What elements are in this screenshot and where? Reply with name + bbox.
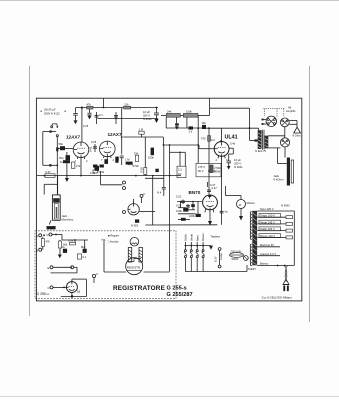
wire x104 vertical bbox=[103, 239, 105, 272]
wire motor feed from transformer area bbox=[226, 186, 242, 196]
record head coil body bbox=[128, 248, 142, 263]
resistor 120k dark bbox=[176, 208, 188, 213]
capacitor on x169.5 bbox=[157, 188, 166, 195]
svg-text:Tastiera: Tastiera bbox=[211, 235, 221, 239]
page right edge bbox=[308, 66, 310, 322]
ground arrow motor bbox=[239, 209, 243, 221]
svg-text:N 4021: N 4021 bbox=[234, 165, 243, 169]
mic jack body bbox=[44, 176, 60, 225]
pilot lamp circle bbox=[243, 256, 248, 261]
terminal F G255u bbox=[92, 272, 98, 278]
wire row y115.6 bbox=[161, 115, 210, 129]
wire from UL41 plate to transformer bbox=[221, 127, 258, 130]
tap Marrone 6V bbox=[257, 243, 280, 247]
resistor cathode V1b dark bbox=[90, 166, 99, 175]
title G 255/287 bbox=[167, 292, 193, 298]
ground arrow below C left bbox=[74, 120, 78, 124]
svg-text:Rosso 110 V: Rosso 110 V bbox=[260, 234, 275, 238]
lamp terminals bbox=[218, 248, 223, 268]
triangle 8 Ohm bbox=[293, 127, 302, 137]
tap Rosso 110V bbox=[257, 234, 292, 239]
wire vertical x78.3 plate feed V1 bbox=[82, 108, 89, 142]
mains plug bbox=[283, 281, 290, 291]
resistor 33k vertical bbox=[128, 151, 139, 166]
tap Grigio 160V bbox=[257, 214, 292, 219]
terminal small mid bbox=[71, 266, 74, 269]
svg-text:Jack: Jack bbox=[62, 214, 68, 218]
resistor 0.47 box on bus bbox=[45, 170, 55, 177]
wire y128 run bbox=[166, 127, 204, 129]
resistor box row R a bbox=[166, 110, 180, 118]
resistor 27k left outlined bbox=[72, 162, 81, 168]
mid coupling: resistor 1M dark bbox=[125, 158, 139, 168]
voltage table box B bbox=[196, 163, 221, 177]
svg-text:1/2W: 1/2W bbox=[214, 170, 221, 174]
wire x103.5 from frame top bbox=[103, 98, 105, 108]
voltage table box A bbox=[177, 166, 186, 178]
ground arrow BN70 bbox=[208, 210, 212, 226]
resistor 47k top bbox=[87, 102, 94, 109]
svg-text:275 V: 275 V bbox=[198, 165, 205, 169]
record head top circle bbox=[130, 237, 139, 246]
svg-text:4µ: 4µ bbox=[225, 210, 228, 214]
power transformer core hatched bbox=[252, 211, 257, 265]
label 12AX7 second bbox=[108, 132, 122, 137]
svg-text:8 Ohm: 8 Ohm bbox=[293, 134, 302, 138]
label BN70 bbox=[189, 190, 201, 195]
wire mic to bus bbox=[51, 176, 57, 193]
terminal C bbox=[48, 286, 67, 290]
svg-text:5.4k: 5.4k bbox=[230, 142, 236, 146]
bias network block right of V2 bbox=[93, 165, 105, 175]
svg-text:0.47: 0.47 bbox=[212, 186, 218, 190]
svg-text:B: B bbox=[36, 248, 38, 252]
tap Nero 220V bbox=[257, 207, 294, 211]
svg-text:0.05: 0.05 bbox=[140, 167, 144, 173]
tap Giallo 125V bbox=[257, 227, 292, 232]
svg-text:Lamp.: Lamp. bbox=[219, 252, 223, 260]
legend Ascolto bbox=[108, 240, 120, 244]
svg-text:REGISTR.: REGISTR. bbox=[127, 266, 141, 270]
wire P2 to speaker vertical bbox=[284, 127, 286, 138]
svg-text:Giallo 125 V: Giallo 125 V bbox=[260, 227, 275, 231]
svg-text:Rosso: Rosso bbox=[201, 233, 205, 241]
svg-text:250V N 4122: 250V N 4122 bbox=[44, 112, 60, 116]
tastiera bottom bus bbox=[185, 265, 247, 272]
svg-text:15k: 15k bbox=[202, 121, 207, 125]
svg-text:2.2: 2.2 bbox=[178, 168, 182, 172]
wire motor top bbox=[240, 196, 242, 200]
svg-text:47k: 47k bbox=[46, 240, 51, 244]
speaker LS circle-X bbox=[280, 138, 289, 147]
wire x160 vertical long bbox=[163, 144, 165, 146]
terminal circles mid bbox=[123, 181, 126, 214]
capacitor tone 1 bbox=[186, 117, 188, 128]
tastiera wire 3 bbox=[195, 235, 199, 272]
dashed link line top bbox=[263, 109, 285, 117]
wire B+ vertical x250 bbox=[210, 108, 258, 141]
page left edge bbox=[29, 66, 31, 316]
tap Bianco bbox=[257, 262, 294, 266]
tube UL41 bbox=[214, 140, 229, 160]
svg-text:Motore: Motore bbox=[247, 201, 256, 205]
terminal D bbox=[47, 233, 63, 237]
resistor 68k below V2 bbox=[115, 156, 120, 163]
wires transformer to speaker bbox=[268, 136, 285, 148]
svg-text:56k: 56k bbox=[59, 142, 64, 146]
label UL41 bbox=[225, 135, 238, 141]
tube T oscillator bbox=[128, 204, 139, 215]
svg-text:N 92: N 92 bbox=[99, 170, 105, 174]
label N 921-75 bbox=[255, 149, 267, 153]
svg-text:8k2: 8k2 bbox=[81, 245, 86, 249]
socket connector P2 circle-X bbox=[280, 118, 297, 127]
ground bus under BN70 bbox=[145, 212, 217, 225]
fuse 220V bbox=[230, 249, 244, 261]
wires BN70 grid left bbox=[177, 201, 202, 221]
capacitor block mid caps bbox=[87, 109, 91, 120]
svg-text:0.1: 0.1 bbox=[83, 255, 87, 259]
svg-text:33k: 33k bbox=[134, 151, 139, 155]
svg-text:A: A bbox=[36, 234, 38, 238]
legend Registr bbox=[108, 234, 120, 238]
svg-text:0.47: 0.47 bbox=[46, 170, 52, 174]
tap Verde 145V bbox=[257, 220, 292, 225]
ground arrow G255u bbox=[58, 254, 62, 258]
socket connector P1 circle-X bbox=[266, 116, 276, 126]
svg-text:E: E bbox=[48, 266, 50, 270]
wire x121.7 bbox=[120, 108, 124, 166]
svg-text:12AX7: 12AX7 bbox=[108, 132, 122, 137]
svg-text:50/60: 50/60 bbox=[232, 257, 239, 261]
svg-text:25+25 µF: 25+25 µF bbox=[44, 108, 56, 112]
svg-text:C: C bbox=[48, 286, 50, 290]
svg-text:N 4122: N 4122 bbox=[143, 117, 152, 121]
resistor 2k dark on y128 bbox=[189, 126, 194, 133]
svg-text:24k: 24k bbox=[167, 110, 172, 114]
svg-text:250 V: 250 V bbox=[234, 162, 241, 166]
svg-text:90 V: 90 V bbox=[198, 169, 204, 173]
wire head bottom to right bbox=[104, 272, 170, 278]
label Jack 8 KOhm bbox=[274, 174, 285, 182]
svg-text:470k: 470k bbox=[133, 164, 139, 168]
resistor 220k dark bbox=[189, 214, 201, 218]
svg-text:12k: 12k bbox=[124, 102, 129, 106]
mains switch S1 bbox=[43, 124, 59, 137]
wire osc plate right bbox=[139, 176, 155, 212]
svg-text:Jack: Jack bbox=[274, 174, 280, 178]
capacitor 0.47 UL41 bbox=[208, 182, 216, 187]
wire top bus y107.5 bbox=[76, 107, 159, 109]
svg-text:Giallo: Giallo bbox=[184, 234, 188, 241]
tube V2 12AX7 bbox=[100, 141, 116, 158]
svg-text:G 255/287: G 255/287 bbox=[167, 292, 193, 298]
resistor cathode V1 dark bbox=[60, 155, 70, 164]
tube V1 12AX7 bbox=[73, 142, 89, 159]
svg-text:G 255-s: G 255-s bbox=[167, 285, 187, 291]
resistor box row R b bbox=[183, 110, 198, 118]
footer SpA Geloso Milano bbox=[262, 295, 293, 299]
resistor 15k top bbox=[124, 102, 131, 109]
svg-text:Arancio 6.3 V: Arancio 6.3 V bbox=[260, 252, 276, 256]
wires speaker down to jack bbox=[278, 147, 287, 164]
pin digits tubes bbox=[75, 158, 229, 163]
svg-text:S.p.A GELOSO Milano: S.p.A GELOSO Milano bbox=[262, 295, 293, 299]
page top edge line bbox=[0, 0, 339, 2]
label 0.45 rotated bbox=[89, 146, 93, 152]
label G 255 u bbox=[37, 292, 49, 296]
output transformer T2 primary coil bbox=[258, 130, 264, 150]
ground arrow on bus bbox=[65, 176, 69, 182]
box 0.1 G255u bbox=[77, 254, 86, 259]
svg-text:N 4: N 4 bbox=[157, 191, 162, 195]
title REGISTRATORE bbox=[113, 285, 166, 292]
capacitor 0.05 on x147 bbox=[140, 167, 159, 175]
wire y163.7 bbox=[43, 132, 58, 167]
svg-text:Microfono: Microfono bbox=[62, 218, 74, 222]
svg-text:1B: 1B bbox=[77, 289, 80, 293]
svg-text:BN70: BN70 bbox=[189, 190, 201, 195]
tastiera wire 2 bbox=[189, 233, 193, 271]
svg-text:27k: 27k bbox=[76, 164, 81, 168]
label Alt Amplific bbox=[286, 106, 296, 113]
capacitor 25uF left bbox=[59, 152, 70, 176]
svg-text:0.05: 0.05 bbox=[91, 140, 97, 144]
svg-text:N 923: N 923 bbox=[131, 224, 139, 228]
wire second bus y118.5 bbox=[98, 118, 159, 120]
tube BN70 bbox=[203, 195, 218, 213]
resistor 1M on y137 bbox=[139, 127, 145, 137]
wire left of V1 vertical bbox=[63, 147, 65, 149]
svg-text:8 KOhm: 8 KOhm bbox=[274, 178, 285, 182]
power transformer primary coil bbox=[250, 212, 252, 240]
label Jack Microfono bbox=[62, 214, 74, 222]
label 47u bbox=[220, 160, 228, 225]
terminal F bbox=[134, 192, 146, 204]
wire y137 run bbox=[123, 137, 214, 149]
capacitor 0.1 mid bbox=[95, 112, 104, 124]
resistor 470 vertical bbox=[201, 136, 211, 142]
legend arrow b bbox=[102, 238, 107, 242]
label Tastiera bbox=[211, 235, 221, 239]
svg-text:270Ω: 270Ω bbox=[214, 166, 221, 170]
svg-text:N4067: N4067 bbox=[248, 267, 256, 271]
svg-text:1 M: 1 M bbox=[139, 127, 144, 131]
electrolytic 10uF 250V N4021 bbox=[227, 157, 244, 170]
wires above box A bbox=[170, 152, 185, 167]
svg-text:12AX7: 12AX7 bbox=[66, 135, 80, 140]
svg-text:4.7k: 4.7k bbox=[128, 162, 134, 166]
tastiera wire 4 bbox=[201, 233, 205, 272]
wire mid verticals bbox=[144, 137, 146, 176]
label 25+25uF 250V N4122 bbox=[40, 108, 67, 116]
svg-text:UL41: UL41 bbox=[225, 135, 238, 141]
wire x56.6 vertical bbox=[56, 137, 58, 176]
twisted cord bbox=[285, 266, 288, 281]
svg-text:150k: 150k bbox=[148, 155, 154, 159]
resistor 15k dark right bbox=[202, 121, 207, 129]
cap 0.02 bbox=[176, 204, 190, 210]
svg-text:□ Ascolto: □ Ascolto bbox=[108, 240, 120, 244]
svg-text:N 4043: N 4043 bbox=[281, 204, 290, 208]
capacitor C 0.25 electrolytic left bbox=[73, 108, 78, 120]
label 6.3V rotated bbox=[214, 256, 218, 262]
resistor 56k grid V1 bbox=[57, 142, 73, 150]
wire x169.5 long vertical bbox=[169, 144, 171, 271]
wire UL41 plate up to y128 bbox=[204, 128, 221, 141]
svg-text:100k: 100k bbox=[186, 110, 192, 114]
svg-text:0.45: 0.45 bbox=[89, 146, 93, 152]
svg-text:0.1: 0.1 bbox=[99, 113, 103, 117]
wire y178.3 short bbox=[145, 177, 164, 179]
schematic border frame bbox=[36, 98, 301, 301]
resistor 8.2k dark G255u bbox=[81, 245, 87, 253]
svg-text:6.3V: 6.3V bbox=[214, 256, 218, 262]
resistor 50k vertical G255u bbox=[59, 240, 68, 254]
svg-text:10 µF: 10 µF bbox=[234, 158, 241, 162]
svg-text:350 V: 350 V bbox=[143, 114, 150, 118]
title G 255-s bbox=[167, 285, 187, 291]
svg-text:470: 470 bbox=[201, 137, 206, 141]
grid network left of BN70: cap 0.22 bbox=[176, 195, 185, 205]
resistor 270 ohm vertical bbox=[210, 165, 221, 174]
G255u network wires bbox=[56, 235, 88, 241]
svg-text:0.22: 0.22 bbox=[176, 195, 182, 199]
resistor 47k G255u bbox=[41, 237, 50, 250]
svg-text:Bianco: Bianco bbox=[260, 262, 269, 266]
record head bottom circle bbox=[126, 258, 143, 275]
svg-text:Amplific.: Amplific. bbox=[286, 109, 296, 113]
svg-text:120k: 120k bbox=[176, 209, 182, 213]
capacitor 0.05 between tubes bbox=[91, 140, 97, 152]
capacitor 0.47 above BN70 bbox=[207, 186, 217, 194]
tastiera wire 1 bbox=[184, 234, 188, 272]
ground arrow tastiera bbox=[209, 246, 213, 250]
wire x204 vertical bbox=[208, 127, 210, 155]
terminal E bbox=[48, 266, 73, 270]
svg-text:Marrone 6V: Marrone 6V bbox=[260, 243, 274, 247]
svg-text:D: D bbox=[47, 233, 49, 237]
jack 8 kOhm bars bbox=[287, 158, 294, 186]
wire into transformer bottom bbox=[219, 271, 221, 273]
socket P1 left stubs bbox=[262, 119, 267, 125]
wire E row to tube bbox=[74, 267, 77, 273]
tap Arancio 6.3V bbox=[257, 252, 280, 256]
capacitor C4 mid2 bbox=[114, 112, 118, 124]
svg-text:10 µF: 10 µF bbox=[143, 110, 150, 114]
motor M bbox=[237, 200, 256, 209]
electrolytic 10uF 350V N4122 bbox=[143, 107, 159, 123]
resistor 1k dark G255u bbox=[62, 245, 67, 253]
label N4067 bbox=[248, 267, 256, 271]
svg-text:5.6k: 5.6k bbox=[68, 239, 74, 243]
wire x209.6 from frame top bbox=[209, 98, 211, 115]
svg-text:1 M: 1 M bbox=[125, 158, 130, 162]
terminal A bbox=[36, 234, 45, 238]
wire tube right G255u bbox=[61, 278, 94, 298]
wire v1 bottom to bus bbox=[80, 158, 82, 176]
svg-text:25µ: 25µ bbox=[59, 156, 64, 160]
svg-text:G 255 u: G 255 u bbox=[37, 292, 49, 296]
power transformer secondary coil low bbox=[250, 244, 252, 266]
wire y272.9 G255u bbox=[51, 272, 78, 274]
svg-text:N 921-75: N 921-75 bbox=[255, 149, 267, 153]
svg-text:■ Registr.: ■ Registr. bbox=[108, 234, 120, 238]
capacitor 5k across UL41 bbox=[211, 138, 236, 146]
wire x163.8 vertical bbox=[163, 145, 165, 196]
svg-text:220k: 220k bbox=[189, 214, 195, 218]
resistor N922 dark vertical bbox=[148, 148, 154, 160]
label 12AX7 first bbox=[66, 135, 80, 140]
svg-text:Nero 220 V: Nero 220 V bbox=[260, 207, 274, 211]
wire x198 vertical bbox=[197, 116, 199, 164]
svg-text:47k: 47k bbox=[87, 102, 92, 106]
tastiera top bus bbox=[185, 245, 211, 247]
svg-text:0.25: 0.25 bbox=[83, 124, 89, 128]
svg-text:6.3: 6.3 bbox=[211, 138, 215, 142]
svg-text:REGISTRATORE: REGISTRATORE bbox=[113, 285, 166, 292]
selector vertical wire bbox=[277, 211, 295, 266]
wire v2 bottom bbox=[104, 157, 108, 164]
svg-text:68k: 68k bbox=[116, 156, 120, 161]
wire x209 from cathode area bbox=[208, 155, 210, 187]
wire UL41 cathode down bbox=[229, 148, 234, 156]
label N 4043 bbox=[281, 204, 290, 208]
tube G255u triode bbox=[66, 282, 80, 294]
svg-text:Verde: Verde bbox=[189, 233, 193, 241]
page bottom faint line bbox=[0, 396, 339, 398]
resistor 5.6k G255u bbox=[60, 239, 85, 249]
wire y184.8 bbox=[101, 171, 123, 185]
svg-text:Verde 145 V: Verde 145 V bbox=[260, 220, 275, 224]
svg-text:Alt.: Alt. bbox=[288, 106, 292, 110]
long bus y175.6 bbox=[37, 175, 181, 177]
svg-text:Nero: Nero bbox=[195, 235, 199, 241]
svg-text:Grigio 160 V: Grigio 160 V bbox=[260, 214, 275, 218]
output transformer T2 secondary coil bbox=[265, 136, 269, 149]
mic jack tip dark bbox=[47, 226, 56, 229]
node dot top bus at x78 bbox=[81, 107, 83, 109]
resistor osc cathode dark bbox=[131, 219, 139, 227]
dashed variant box bbox=[35, 231, 176, 299]
terminal B bbox=[36, 248, 42, 252]
